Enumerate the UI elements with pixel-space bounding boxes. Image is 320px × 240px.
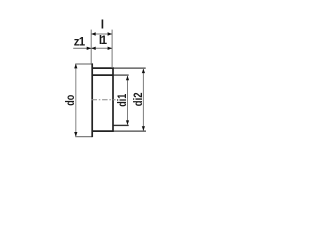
svg-text:di2: di2 [133, 92, 145, 106]
pipe outer bottom edge [75, 136, 92, 138]
do bottom arrow [74, 132, 77, 137]
socket step face [91, 63, 93, 137]
dimension l1 right arrow [108, 47, 113, 50]
di2 bottom arrow [142, 126, 145, 131]
svg-text:l: l [101, 18, 104, 32]
dimension line l [91, 33, 112, 35]
di1 bottom reference line [113, 124, 129, 126]
socket outer bottom edge [92, 130, 114, 132]
dimension line l1 [91, 47, 112, 49]
svg-text:do: do [65, 95, 77, 106]
svg-text:di1: di1 [117, 93, 129, 106]
extension line left for l and l1 [90, 30, 92, 64]
di2 top arrow [142, 69, 145, 74]
di2 top extension line [114, 67, 146, 69]
di1 dimension line [127, 76, 129, 125]
di2 bottom extension line [114, 130, 146, 132]
socket right end face [112, 67, 114, 131]
svg-text:l1: l1 [99, 35, 108, 47]
pipe outer top edge [75, 63, 92, 65]
do top arrow [74, 64, 77, 69]
dimension z1 right arrow [87, 47, 92, 50]
di1 bottom arrow [126, 120, 129, 125]
svg-text:z1: z1 [74, 37, 86, 49]
centerline [92, 99, 116, 101]
pipe left end face with do dimension line [75, 64, 77, 137]
dimension l1 left arrow [91, 47, 96, 50]
di1 top arrow [126, 76, 129, 81]
dimension line z1 [73, 47, 91, 49]
di1 top extension line [114, 74, 129, 76]
extension line right for l and l1 [111, 30, 113, 68]
socket bore top edge [92, 74, 114, 76]
socket outer top edge [92, 67, 114, 69]
dimension l right arrow [108, 32, 113, 35]
di2 dimension line [142, 69, 144, 130]
dimension l left arrow [91, 32, 96, 35]
